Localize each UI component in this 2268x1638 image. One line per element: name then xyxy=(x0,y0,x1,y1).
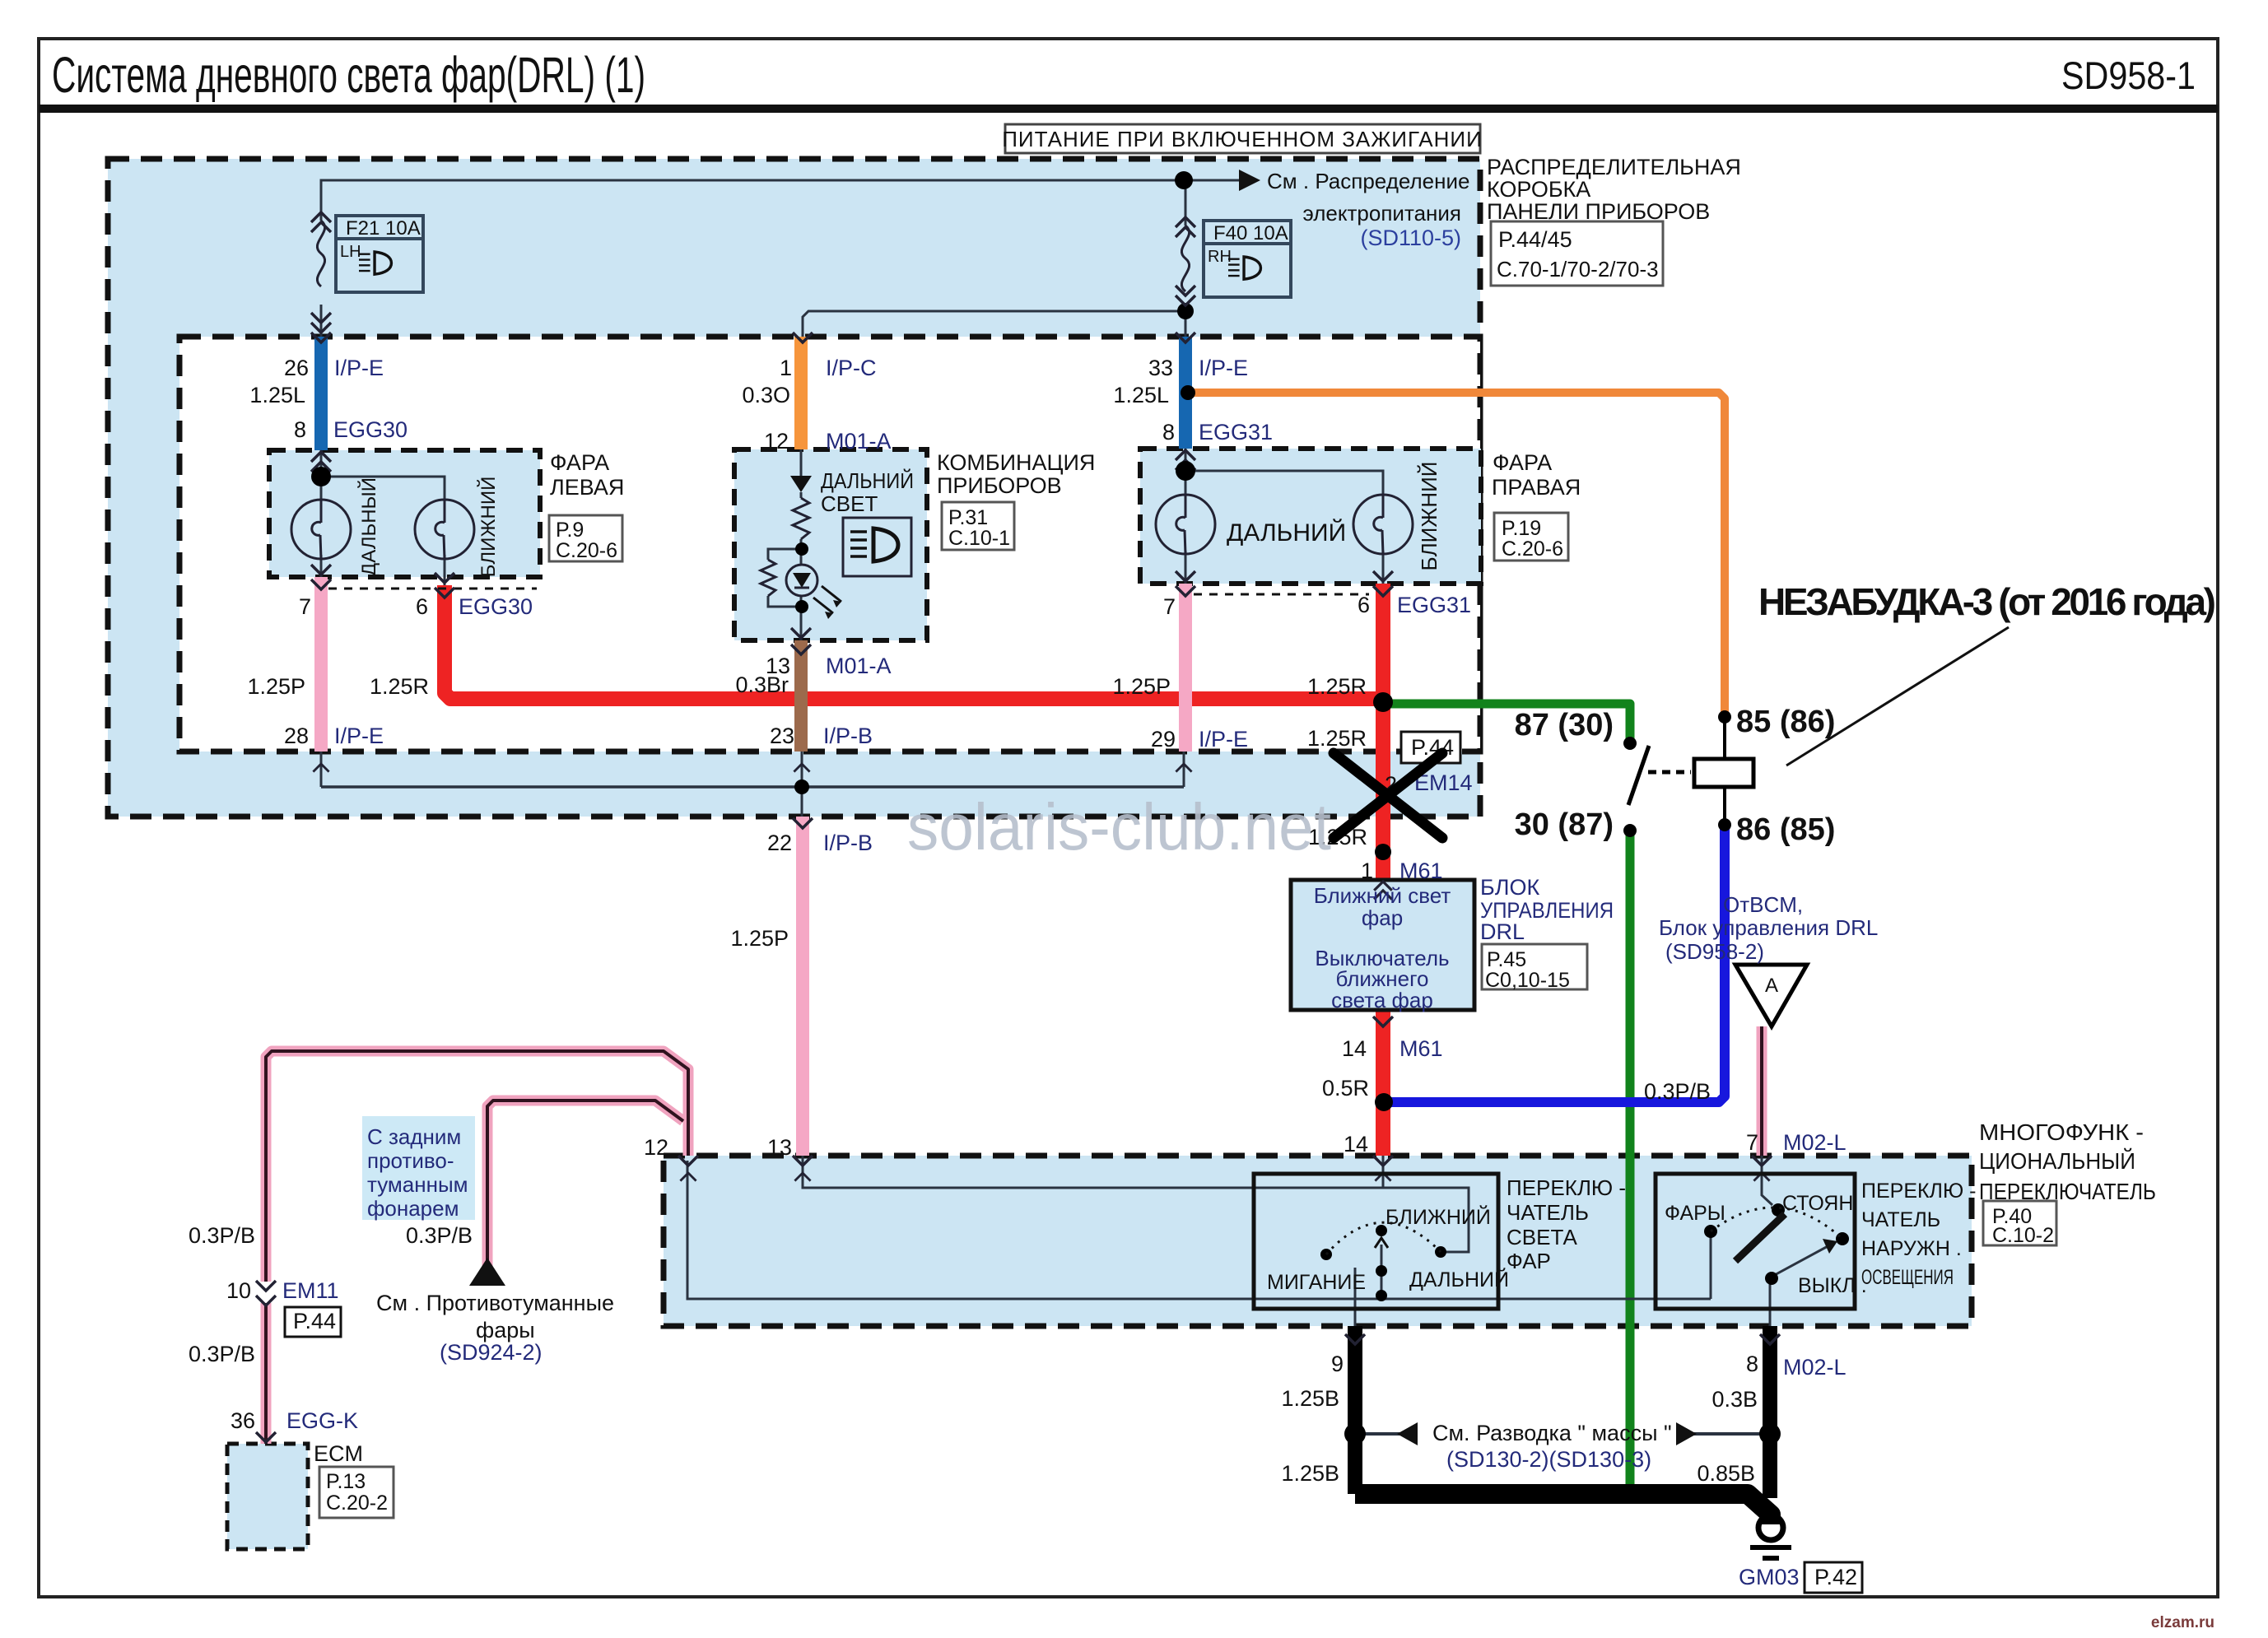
svg-text:1.25P: 1.25P xyxy=(1112,674,1171,699)
svg-text:ЧАТЕЛЬ: ЧАТЕЛЬ xyxy=(1507,1200,1589,1225)
svg-text:C.20-6: C.20-6 xyxy=(556,539,617,562)
svg-text:SD958-1: SD958-1 xyxy=(2061,54,2196,97)
svg-text:M02-L: M02-L xyxy=(1783,1130,1847,1155)
svg-text:28: 28 xyxy=(284,724,309,748)
svg-text:БЛИЖНИЙ: БЛИЖНИЙ xyxy=(477,477,500,578)
svg-text:0.85B: 0.85B xyxy=(1697,1461,1755,1486)
svg-text:P.44: P.44 xyxy=(293,1309,336,1333)
svg-text:86 (85): 86 (85) xyxy=(1736,812,1835,847)
svg-text:P.19: P.19 xyxy=(1502,517,1541,540)
svg-text:EM11: EM11 xyxy=(282,1278,339,1303)
svg-text:P.31: P.31 xyxy=(948,506,988,529)
svg-text:МНОГОФУНК -: МНОГОФУНК - xyxy=(1979,1119,2144,1145)
svg-text:P.44/45: P.44/45 xyxy=(1498,227,1572,252)
svg-text:87 (30): 87 (30) xyxy=(1515,708,1614,742)
svg-text:13: 13 xyxy=(767,1135,792,1160)
svg-text:EGG30: EGG30 xyxy=(333,417,407,442)
svg-text:СВЕТ: СВЕТ xyxy=(821,491,878,516)
svg-text:ФАР: ФАР xyxy=(1507,1249,1551,1273)
svg-text:1: 1 xyxy=(780,356,792,380)
svg-text:(SD130-2)(SD130-3): (SD130-2)(SD130-3) xyxy=(1446,1447,1651,1472)
svg-text:M01-A: M01-A xyxy=(826,654,892,678)
svg-text:1.25B: 1.25B xyxy=(1281,1461,1339,1486)
svg-text:МИГАНИЕ: МИГАНИЕ xyxy=(1267,1271,1366,1294)
svg-text:C0,10-15: C0,10-15 xyxy=(1485,969,1570,992)
svg-text:14: 14 xyxy=(1342,1036,1367,1061)
svg-text:I/P-E: I/P-E xyxy=(334,356,384,380)
svg-text:света фар: света фар xyxy=(1331,988,1433,1012)
svg-text:ДАЛЬНЫЙ: ДАЛЬНЫЙ xyxy=(357,477,380,576)
svg-text:НЕЗАБУДКА-3 (от 2016 года): НЕЗАБУДКА-3 (от 2016 года) xyxy=(1758,580,2216,623)
svg-text:1.25R: 1.25R xyxy=(1307,674,1367,699)
svg-text:См. Разводка " массы ": См. Разводка " массы " xyxy=(1432,1421,1672,1445)
svg-text:ФАРА: ФАРА xyxy=(550,450,609,475)
svg-text:ДАЛЬНИЙ: ДАЛЬНИЙ xyxy=(1227,519,1346,547)
svg-text:Блок управления DRL: Блок управления DRL xyxy=(1659,915,1878,940)
svg-text:БЛОК: БЛОК xyxy=(1480,875,1539,900)
svg-text:P.42: P.42 xyxy=(1814,1565,1857,1589)
svg-text:А: А xyxy=(1765,975,1778,997)
svg-text:(SD958-2): (SD958-2) xyxy=(1665,939,1764,964)
svg-text:36: 36 xyxy=(231,1408,255,1433)
svg-text:GM03: GM03 xyxy=(1739,1565,1800,1589)
svg-text:(SD110-5): (SD110-5) xyxy=(1360,226,1461,250)
svg-text:1.25L: 1.25L xyxy=(1113,383,1169,407)
svg-text:СТОЯН: СТОЯН xyxy=(1782,1192,1853,1215)
svg-text:26: 26 xyxy=(284,356,309,380)
svg-text:EGG31: EGG31 xyxy=(1199,420,1273,444)
svg-text:ВЫКЛ .: ВЫКЛ . xyxy=(1798,1274,1867,1297)
svg-text:EGG30: EGG30 xyxy=(459,594,533,619)
svg-text:M61: M61 xyxy=(1399,859,1443,883)
svg-text:ОтBCM,: ОтBCM, xyxy=(1723,892,1803,917)
svg-text:LH: LH xyxy=(340,243,361,261)
svg-text:12: 12 xyxy=(644,1135,668,1160)
svg-text:12: 12 xyxy=(764,429,789,454)
svg-text:ЛЕВАЯ: ЛЕВАЯ xyxy=(550,475,624,500)
svg-text:I/P-E: I/P-E xyxy=(334,724,384,748)
svg-text:29: 29 xyxy=(1151,727,1176,752)
svg-text:ПЕРЕКЛЮЧАТЕЛЬ: ПЕРЕКЛЮЧАТЕЛЬ xyxy=(1979,1179,2156,1204)
svg-text:M01-A: M01-A xyxy=(826,429,892,454)
svg-text:DRL: DRL xyxy=(1480,919,1525,944)
svg-text:туманным: туманным xyxy=(367,1172,468,1197)
svg-text:0.3Br: 0.3Br xyxy=(735,672,789,697)
svg-text:РАСПРЕДЕЛИТЕЛЬНАЯ: РАСПРЕДЕЛИТЕЛЬНАЯ xyxy=(1487,155,1741,179)
svg-text:solaris-club.net: solaris-club.net xyxy=(907,790,1331,863)
svg-text:F21 10A: F21 10A xyxy=(346,217,421,240)
svg-text:C.10-1: C.10-1 xyxy=(948,527,1010,550)
svg-text:10: 10 xyxy=(226,1278,251,1303)
svg-text:0.3O: 0.3O xyxy=(742,383,790,407)
svg-text:0.5R: 0.5R xyxy=(1322,1076,1369,1101)
svg-text:НАРУЖН .: НАРУЖН . xyxy=(1861,1237,1962,1260)
svg-text:СВЕТА: СВЕТА xyxy=(1507,1225,1577,1249)
svg-text:C.20-2: C.20-2 xyxy=(326,1491,388,1515)
svg-text:RH: RH xyxy=(1208,248,1232,266)
svg-text:C.70-1/70-2/70-3: C.70-1/70-2/70-3 xyxy=(1497,257,1659,282)
svg-text:8: 8 xyxy=(1746,1352,1758,1376)
svg-text:ПИТАНИЕ ПРИ ВКЛЮЧЕННОМ ЗАЖ: ПИТАНИЕ ПРИ ВКЛЮЧЕННОМ ЗАЖИГАНИИ xyxy=(1002,127,1483,151)
svg-text:ЦИОНАЛЬНЫЙ: ЦИОНАЛЬНЫЙ xyxy=(1979,1148,2135,1174)
svg-text:ДАЛЬНИЙ: ДАЛЬНИЙ xyxy=(1409,1267,1509,1291)
svg-text:1.25P: 1.25P xyxy=(730,926,789,951)
svg-text:(SD924-2): (SD924-2) xyxy=(440,1340,543,1365)
svg-text:I/P-E: I/P-E xyxy=(1199,727,1248,752)
svg-text:1: 1 xyxy=(1361,859,1373,883)
svg-text:ПЕРЕКЛЮ -: ПЕРЕКЛЮ - xyxy=(1507,1175,1626,1200)
svg-text:ЧАТЕЛЬ: ЧАТЕЛЬ xyxy=(1861,1208,1940,1231)
svg-text:фар: фар xyxy=(1362,905,1403,930)
svg-text:P.45: P.45 xyxy=(1487,948,1526,971)
svg-text:фары: фары xyxy=(476,1318,535,1343)
svg-text:M02-L: M02-L xyxy=(1783,1355,1847,1380)
svg-text:C.10-2: C.10-2 xyxy=(1992,1224,2054,1247)
svg-text:1.25L: 1.25L xyxy=(249,383,305,407)
svg-text:I/P-B: I/P-B xyxy=(823,724,873,748)
svg-text:P.13: P.13 xyxy=(326,1470,366,1493)
svg-text:ОСВЕЩЕНИЯ: ОСВЕЩЕНИЯ xyxy=(1861,1266,1954,1289)
svg-text:elzam.ru: elzam.ru xyxy=(2151,1614,2214,1631)
svg-text:Система дневного света фар(DR: Система дневного света фар(DRL) (1) xyxy=(52,47,645,103)
svg-text:7: 7 xyxy=(299,594,311,619)
svg-text:ПАНЕЛИ ПРИБОРОВ: ПАНЕЛИ ПРИБОРОВ xyxy=(1487,199,1710,224)
svg-text:I/P-B: I/P-B xyxy=(823,831,873,855)
svg-text:P.9: P.9 xyxy=(556,519,584,542)
svg-text:33: 33 xyxy=(1148,356,1173,380)
svg-text:7: 7 xyxy=(1163,594,1176,619)
svg-text:КОРОБКА: КОРОБКА xyxy=(1487,177,1590,202)
svg-text:0.3B: 0.3B xyxy=(1711,1387,1758,1412)
svg-text:1.25B: 1.25B xyxy=(1281,1386,1339,1411)
svg-text:ECM: ECM xyxy=(314,1441,363,1466)
svg-text:85 (86): 85 (86) xyxy=(1736,705,1835,739)
svg-text:6: 6 xyxy=(1358,593,1370,617)
svg-text:23: 23 xyxy=(770,724,794,748)
svg-text:ПРАВАЯ: ПРАВАЯ xyxy=(1492,475,1581,500)
svg-text:6: 6 xyxy=(416,594,428,619)
svg-text:С задним: С задним xyxy=(367,1124,461,1149)
svg-text:0.3P/B: 0.3P/B xyxy=(189,1223,255,1248)
svg-text:противо-: противо- xyxy=(367,1148,454,1173)
svg-text:8: 8 xyxy=(1162,420,1175,444)
svg-text:0.3P/B: 0.3P/B xyxy=(189,1342,255,1366)
svg-text:I/P-C: I/P-C xyxy=(826,356,877,380)
svg-text:7: 7 xyxy=(1746,1130,1758,1155)
svg-text:C.20-6: C.20-6 xyxy=(1502,537,1563,561)
svg-text:I/P-E: I/P-E xyxy=(1199,356,1248,380)
svg-text:электропитания: электропитания xyxy=(1303,201,1461,226)
svg-text:ФАРЫ: ФАРЫ xyxy=(1665,1202,1725,1225)
svg-text:0.3P/B: 0.3P/B xyxy=(1644,1079,1711,1104)
svg-text:30 (87): 30 (87) xyxy=(1515,807,1614,842)
svg-text:ПЕРЕКЛЮ -: ПЕРЕКЛЮ - xyxy=(1861,1180,1977,1203)
svg-text:M61: M61 xyxy=(1399,1036,1443,1061)
svg-text:БЛИЖНИЙ: БЛИЖНИЙ xyxy=(1385,1204,1491,1229)
svg-text:КОМБИНАЦИЯ: КОМБИНАЦИЯ xyxy=(937,450,1095,475)
svg-text:EGG-K: EGG-K xyxy=(286,1408,358,1433)
svg-text:Ближний свет: Ближний свет xyxy=(1314,883,1451,908)
svg-text:1.25R: 1.25R xyxy=(370,674,429,699)
svg-text:См . Распределение: См . Распределение xyxy=(1267,169,1469,193)
svg-text:1.25P: 1.25P xyxy=(247,674,305,699)
svg-text:14: 14 xyxy=(1344,1132,1368,1156)
svg-text:EGG31: EGG31 xyxy=(1397,593,1471,617)
svg-text:фонарем: фонарем xyxy=(367,1196,459,1221)
svg-text:F40 10A: F40 10A xyxy=(1213,222,1288,244)
svg-text:22: 22 xyxy=(767,831,792,855)
svg-text:1.25R: 1.25R xyxy=(1307,726,1367,751)
svg-text:ФАРА: ФАРА xyxy=(1493,450,1552,475)
svg-text:ПРИБОРОВ: ПРИБОРОВ xyxy=(937,473,1062,498)
svg-text:0.3P/B: 0.3P/B xyxy=(406,1223,473,1248)
svg-text:9: 9 xyxy=(1331,1352,1344,1376)
svg-text:См . Противотуманные: См . Противотуманные xyxy=(376,1291,614,1315)
svg-text:БЛИЖНИЙ: БЛИЖНИЙ xyxy=(1417,462,1441,571)
svg-text:ДАЛЬНИЙ: ДАЛЬНИЙ xyxy=(821,468,914,493)
svg-text:8: 8 xyxy=(294,417,306,442)
